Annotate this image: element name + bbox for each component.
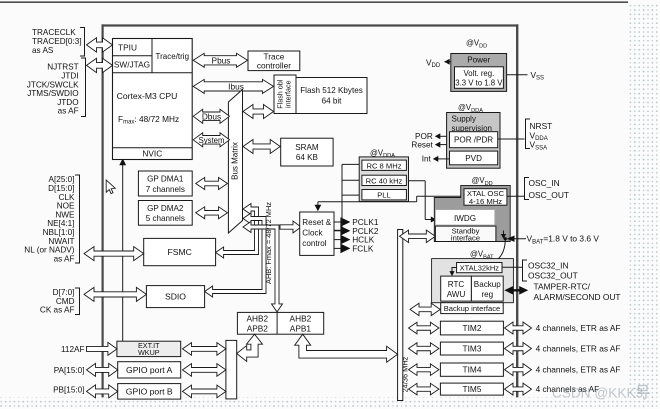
arrow JTAG to SW/JTAG [87,58,113,72]
RTC AWU box [441,276,472,301]
wire VBAT in [508,238,526,240]
channel matrix to AHB bridge [243,222,283,312]
wire rcc drop [317,202,319,205]
Reset Clock control box [300,212,334,255]
arrow GPIOB to bus [183,385,226,398]
svg-text:IWDG: IWDG [454,214,476,223]
svg-text:APB2: APB2 [247,324,269,334]
svg-text:D[15:0]: D[15:0] [48,184,74,193]
Trace controller box [248,51,300,71]
Flash 512 Kbytes box [296,78,367,114]
arrowhead into rcc [315,205,322,212]
bracket jtag pins [81,58,86,117]
svg-text:interface: interface [451,234,480,243]
arrow bus to TIM3 [409,343,439,355]
arrowhead PCLK1 [340,217,350,227]
svg-text:RC 40 kHz: RC 40 kHz [366,176,403,185]
arrowhead PCLK2 [340,226,350,236]
wire xtal drop [416,196,418,202]
svg-text:112AF: 112AF [61,345,85,354]
svg-text:Reset: Reset [411,140,433,149]
arrowhead vbat tick [501,234,506,239]
bracket trace pins [80,28,85,57]
wire RC40 to IWDG [425,219,431,221]
wire clocks to rcc [318,201,417,203]
arrow matrix-flash interface [243,105,274,119]
arrow DMA1-matrix [196,178,228,190]
arrow TIM3 pins [505,343,532,355]
mouse cursor [106,180,115,194]
channel matrix to FSMC [216,204,259,259]
Supply supervision block [447,113,500,169]
svg-text:TRACED[0:3]: TRACED[0:3] [32,37,82,46]
wire FCLK [334,247,341,249]
arrow 112AF to EXTI [87,342,117,355]
AHB/APB bridge box [237,312,323,334]
svg-text:Power: Power [467,55,490,64]
arrowhead Reset [435,142,441,148]
svg-text:Flash 512 Kbytes: Flash 512 Kbytes [300,86,363,95]
arrow GPIOA to bus [183,364,226,377]
wire RC40 left [342,179,362,181]
svg-text:POR /PDR: POR /PDR [454,136,493,145]
POR PDR box [450,132,498,148]
wire POR out [440,135,447,137]
wire xtal32 to OSC32 pins [502,266,522,268]
GP DMA1 box [138,171,192,196]
svg-text:APB1: APB1 [290,324,312,334]
wire PCLK2 [334,230,341,232]
diagram frame top [102,24,519,26]
channel APB1 to apb1 bus [295,334,398,362]
arrow TRACE to TPIU [87,38,113,52]
Standby interface box [435,226,496,241]
svg-text:PLL: PLL [377,191,391,200]
wire xtal to OSC pins [507,195,524,197]
wire xtal32 bend [452,268,457,272]
svg-text:JTDI: JTDI [61,72,78,81]
wire vbat tick [503,231,505,235]
svg-text:AWU: AWU [447,290,466,299]
Backup reg box [471,276,503,301]
svg-text:A[25:0]: A[25:0] [49,175,75,184]
svg-text:CMD: CMD [56,297,75,306]
svg-text:control: control [302,239,326,248]
svg-text:5 channels: 5 channels [146,214,185,223]
svg-text:64 bit: 64 bit [322,97,343,106]
arrowhead into IWDG [431,217,437,223]
arrow EXTI to bus [183,343,226,356]
arrowhead POR [435,133,441,139]
SRAM box [281,138,333,166]
svg-text:GPIO port A: GPIO port A [126,365,173,375]
svg-text:4 channels, ETR as AF: 4 channels, ETR as AF [536,344,621,354]
svg-text:4 channels, ETR as AF: 4 channels, ETR as AF [536,323,621,333]
arrowhead xtal32 to RTC [449,271,454,276]
svg-text:TPIU: TPIU [118,42,137,52]
svg-text:as AS: as AS [32,46,54,55]
arrow Dbus [193,109,229,123]
svg-text:FCLK: FCLK [352,243,374,253]
svg-text:Dbus: Dbus [202,111,221,121]
svg-text:24/36 MHz: 24/36 MHz [400,356,409,392]
svg-text:NL (or NADV): NL (or NADV) [24,246,74,255]
wire Int out [438,158,450,160]
svg-text:controller: controller [257,61,291,71]
svg-text:AHB2: AHB2 [290,314,312,324]
svg-text:GP DMA2: GP DMA2 [147,204,184,213]
Flash obl interface box [274,75,296,114]
svg-text:OSC_OUT: OSC_OUT [529,190,570,200]
svg-text:AHB: Fmax = 48/72 MHz: AHB: Fmax = 48/72 MHz [264,202,273,284]
svg-text:Int: Int [422,155,432,164]
svg-text:NWE: NWE [55,210,75,219]
SDIO box [146,286,204,308]
svg-text:NRST: NRST [530,121,553,131]
svg-text:CK as AF: CK as AF [40,306,75,315]
APB1 peripheral bus [398,230,403,401]
watermark hao glyph [637,386,650,400]
svg-text:Cortex-M3 CPU: Cortex-M3 CPU [117,91,178,101]
wire PORPDR to NRST [498,138,525,140]
divider debug row bottom [113,72,193,74]
svg-text:XTAL32kHz: XTAL32kHz [460,264,500,273]
svg-text:RC 8 MHz: RC 8 MHz [366,161,401,170]
svg-text:TIM3: TIM3 [463,344,482,354]
svg-text:Supply: Supply [452,115,476,124]
svg-text:JTCK/SWCLK: JTCK/SWCLK [27,80,79,89]
svg-text:PA[15:0]: PA[15:0] [54,366,85,375]
divider tracetrig vertical [151,39,153,73]
arrow bus to TIM5 [409,383,439,395]
svg-text:WKUP: WKUP [138,348,160,357]
arrow PA pins [87,363,118,376]
svg-text:NOE: NOE [57,202,75,211]
arrow DMA2-matrix [196,207,228,219]
Bus Matrix parallelogram [228,90,242,234]
backup domain container [432,259,514,303]
svg-text:4 channels, ETR as AF: 4 channels, ETR as AF [536,365,621,375]
svg-text:SW/JTAG: SW/JTAG [114,60,150,70]
wire RC40 to IWDG right [409,180,426,182]
bracket NRST [526,119,531,149]
svg-text:TIM2: TIM2 [463,323,482,333]
svg-text:TIM5: TIM5 [463,384,482,394]
diagram frame right [516,24,518,397]
svg-text:D[7:0]: D[7:0] [53,288,75,297]
TIM5 box [440,383,503,395]
XTAL32kHz box [457,263,502,273]
bracket OSC [525,178,530,200]
TIM3 box [440,342,503,355]
svg-text:FSMC: FSMC [168,247,192,257]
XTAL OSC box [464,189,507,206]
bracket fsmc pins [75,175,80,263]
arrow SDIO pins [84,287,146,301]
diagram frame left [101,24,103,397]
arrow TIM5 pins [505,383,532,395]
svg-text:Clock: Clock [302,229,323,238]
arrow FSMC pins [84,247,144,261]
svg-text:64 KB: 64 KB [296,153,318,162]
IWDG box [435,210,494,225]
svg-text:Volt. reg.: Volt. reg. [464,69,495,78]
channel matrix to SDIO [205,213,266,297]
Volt reg box [455,67,504,89]
wire RC40 drop [424,181,426,220]
svg-text:interface: interface [284,80,293,108]
RC osc container [359,157,408,202]
arrow TIM2 pins [505,322,532,334]
svg-text:PB[15:0]: PB[15:0] [53,385,84,394]
GP DMA2 box [138,201,192,226]
arrowhead HCLK [340,235,350,245]
TIM4 box [440,363,503,376]
bracket OSC32 [523,260,528,281]
RC 8 MHz box [362,160,407,170]
PLL box [362,190,407,200]
svg-text:OSC32_OUT: OSC32_OUT [528,271,578,281]
arrow Ibus [193,79,273,93]
GPIO peripheral bus [226,340,237,399]
TIM2 box [440,321,503,335]
svg-text:TIM4: TIM4 [463,365,482,375]
svg-text:Pbus: Pbus [212,55,231,65]
wire PCLK1 [334,221,341,223]
svg-text:CSDN @KKK3: CSDN @KKK3 [552,386,643,401]
svg-text:NE[4:1]: NE[4:1] [47,219,74,228]
arrowhead FCLK [340,244,350,254]
svg-text:TAMPER-RTC/: TAMPER-RTC/ [534,282,591,292]
GPIO port B box [118,384,181,400]
svg-text:Backup interface: Backup interface [444,304,501,313]
wire VSS [507,74,528,76]
RC 40 kHz box [362,175,407,185]
svg-text:Bus Matrix: Bus Matrix [231,142,240,180]
vbat junction dot [504,237,507,240]
arrow matrix-SRAM [243,140,280,154]
svg-text:NVIC: NVIC [142,149,162,159]
divider TPIU/SWJTAG [113,55,153,57]
arrowhead Int [433,156,439,162]
svg-text:NWAIT: NWAIT [48,237,74,246]
svg-text:System: System [199,136,225,145]
wire Reset out [440,144,447,146]
bracket sdio pins [75,288,80,315]
wire RC8 left [342,163,362,165]
svg-text:PVD: PVD [465,154,482,163]
PVD box [450,151,498,165]
arrowhead VBAT [507,236,515,242]
svg-text:Reset &: Reset & [302,218,331,227]
svg-text:SDIO: SDIO [165,292,186,302]
watchdog gray container [434,185,510,241]
wire xtal horizontal [417,195,464,197]
svg-text:CLK: CLK [59,193,75,202]
arrowhead VDD [444,59,450,65]
svg-text:GP DMA1: GP DMA1 [147,174,184,183]
Cortex-M3 CPU block [113,39,193,160]
dotted background bottom strip [0,398,660,409]
wire osc vertical [341,164,343,230]
svg-text:as AF: as AF [58,107,79,116]
EXT IT WKUP box [117,341,181,356]
arrowhead into NVIC [119,158,126,165]
channel APB2 to gpio bus [237,334,263,361]
FSMC box [144,238,216,265]
wire VDD [445,61,451,63]
TAMPER dual arrow [504,286,528,295]
wire vbat curve [499,240,506,259]
svg-text:Backup: Backup [474,280,501,289]
page top rule [0,1,628,3]
arrow bus to TIM4 [409,364,439,376]
svg-text:as AF: as AF [54,254,75,263]
divider NVIC top [113,147,193,149]
arrow bus to backup interface [410,303,440,315]
dotted background right strip [628,4,660,409]
Power block [451,54,507,92]
svg-text:OSC_IN: OSC_IN [529,178,560,188]
svg-text:4-16 MHz: 4-16 MHz [469,197,502,206]
arrow TIM4 pins [505,364,532,376]
arrow Pbus [193,53,247,67]
arrow AHB to Reset Clock [280,221,301,233]
svg-text:RTC: RTC [448,280,465,289]
GPIO port A box [118,362,181,378]
svg-text:GPIO port B: GPIO port B [126,387,173,397]
svg-text:JTDO: JTDO [57,98,78,107]
svg-text:ALARM/SECOND OUT: ALARM/SECOND OUT [534,292,621,302]
svg-text:NJTRST: NJTRST [47,63,78,72]
svg-text:JTMS/SWDIO: JTMS/SWDIO [27,89,78,98]
wire EXTI to NVIC [122,162,124,341]
svg-text:reg: reg [481,290,493,299]
arrow bus to standby [400,230,436,242]
svg-text:NBL[1:0]: NBL[1:0] [43,228,75,237]
svg-text:AHB2: AHB2 [246,314,268,324]
Backup interface box [441,303,504,314]
svg-text:7 channels: 7 channels [146,185,185,194]
arrow bus to TIM2 [409,322,439,334]
svg-text:3.3 V to 1.8 V: 3.3 V to 1.8 V [455,78,503,87]
arrow System [193,133,229,147]
arrow PB pins [87,385,118,398]
wire osc to rcc [334,229,342,231]
svg-text:TRACECLK: TRACECLK [32,28,76,37]
wire HCLK [334,239,341,241]
svg-text:SRAM: SRAM [295,143,319,152]
svg-text:Trace/trig: Trace/trig [156,52,190,61]
svg-text:OSC32_IN: OSC32_IN [528,260,569,270]
bridge divider [276,312,278,334]
wire PLL left [342,194,362,196]
